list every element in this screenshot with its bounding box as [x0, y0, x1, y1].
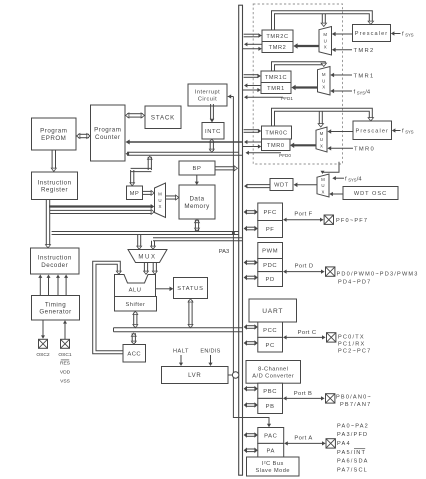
svg-text:M: M	[323, 32, 327, 37]
svg-text:Circuit: Circuit	[198, 96, 217, 102]
label TMR2 pin	[354, 48, 375, 54]
block WDT	[270, 179, 293, 191]
svg-text:Memory: Memory	[184, 203, 210, 210]
label PA5/INT	[337, 449, 366, 456]
register TMR0C	[262, 126, 292, 139]
svg-text:Register: Register	[41, 187, 68, 194]
svg-text:MUX: MUX	[138, 255, 156, 261]
svg-text:SYS: SYS	[405, 33, 414, 38]
svg-text:STATUS: STATUS	[177, 286, 203, 292]
wire branch into M3 top	[318, 111, 323, 127]
wire INT/PFD vertical line to Interrupt Circuit and Port A	[228, 94, 272, 427]
svg-text:Prescaler: Prescaler	[355, 31, 389, 37]
wire M3 output to TMR0 (thick)	[290, 143, 316, 148]
label PC0/TX	[338, 334, 365, 340]
svg-text:Generator: Generator	[39, 309, 71, 316]
svg-text:PFD1: PFD1	[281, 96, 293, 101]
wire Interrupt Circuit to INTC	[210, 104, 215, 123]
svg-text:PD: PD	[266, 277, 275, 283]
wire HALT to LVR	[179, 355, 183, 366]
svg-text:TMR2: TMR2	[354, 48, 375, 54]
wire Prescaler to M3	[327, 129, 353, 133]
svg-text:Counter: Counter	[95, 134, 121, 141]
wire into M4 top	[321, 162, 340, 174]
bus write arrow to TMR2	[243, 47, 262, 51]
svg-text:Timing: Timing	[45, 301, 66, 308]
svg-text:PA0~PA2: PA0~PA2	[337, 424, 369, 430]
label VSS	[60, 379, 71, 385]
wire EPROM down to Instruction Register	[51, 150, 56, 172]
label fSYS/4 (WDT input)	[345, 177, 362, 183]
svg-text:PA6/SDA: PA6/SDA	[337, 459, 369, 465]
svg-text:M: M	[322, 72, 326, 77]
label PA3/PFD	[337, 432, 368, 438]
block INTC	[202, 123, 224, 140]
svg-text:PD4~PD7: PD4~PD7	[338, 279, 371, 285]
svg-text:Shifter: Shifter	[126, 302, 146, 308]
label PFD0 under TMR0	[279, 153, 291, 158]
svg-text:TMR1: TMR1	[354, 74, 375, 80]
wire fSYS to Prescaler	[392, 128, 401, 132]
pad Port F	[324, 215, 333, 224]
wire STATUS to data bus (double arrow)	[188, 299, 193, 328]
bus arrow PB	[244, 402, 258, 408]
svg-text:EN/DIS: EN/DIS	[200, 349, 220, 355]
svg-text:PC0/TX: PC0/TX	[338, 334, 365, 340]
svg-text:PBC: PBC	[263, 389, 277, 395]
svg-text:PA3: PA3	[219, 249, 230, 255]
block Program EPROM	[32, 118, 77, 150]
label TMR0 pin	[354, 147, 375, 153]
wire data bus lower H3	[114, 328, 243, 332]
wire data bus to ACC (double arrow)	[131, 333, 136, 344]
internal data bus (vertical double line with end caps)	[238, 5, 243, 475]
svg-text:PCC: PCC	[263, 328, 277, 334]
pad Port B	[326, 394, 335, 403]
label PC2~PC7	[338, 348, 371, 354]
label Port F	[294, 212, 312, 218]
wire M2 output to TMR1 (thick)	[291, 85, 317, 90]
pad Port C	[327, 333, 336, 342]
wire PFD1 to bus	[244, 95, 283, 99]
bus read arrow from TMR2	[244, 42, 262, 46]
wire PC-STACK (double arrow)	[126, 113, 145, 118]
svg-text:Instruction: Instruction	[38, 255, 72, 262]
mux M4 (WDT clock mux)	[317, 174, 329, 197]
label PC1/RX	[338, 341, 365, 347]
bus write arrow to TMR0	[243, 144, 262, 148]
label fSYS (TMR2 prescaler input)	[402, 32, 414, 38]
svg-text:PA3/PFD: PA3/PFD	[337, 432, 368, 438]
svg-text:TMR0C: TMR0C	[265, 131, 287, 137]
wire OSC1 to TG	[63, 320, 67, 339]
block Shifter	[115, 297, 157, 312]
svg-text:Interrupt: Interrupt	[195, 90, 220, 96]
label PA0~PA2	[337, 424, 369, 430]
label TMR1 pin	[354, 74, 375, 80]
mux M5 (RAM address mux)	[155, 183, 166, 218]
bus read arrow from TMR0	[244, 140, 262, 144]
block STATUS	[174, 278, 208, 299]
label PA3 on wire	[219, 249, 230, 255]
bus arrow PC	[244, 340, 258, 346]
register PFC	[258, 203, 283, 221]
prescaler (TMR0)	[353, 121, 392, 140]
label PA6/SDA	[337, 459, 369, 465]
register PWM	[258, 243, 283, 259]
wire EPROM-PC (double arrow)	[77, 134, 91, 139]
wire M1 output to TMR2 (thick)	[293, 43, 319, 48]
junction dot on INT wire	[232, 232, 235, 235]
svg-text:Port B: Port B	[294, 391, 313, 397]
svg-text:INTC: INTC	[205, 129, 221, 135]
svg-text:PC1/RX: PC1/RX	[338, 341, 365, 347]
pad OSC1	[61, 339, 70, 348]
svg-text:U: U	[158, 198, 161, 203]
svg-text:Program: Program	[40, 128, 67, 135]
svg-text:SYS: SYS	[405, 130, 414, 135]
svg-text:Data: Data	[189, 196, 204, 203]
svg-text:RES: RES	[60, 361, 71, 367]
block WDT OSC	[343, 187, 398, 200]
svg-text:PFC: PFC	[263, 210, 276, 216]
svg-text:TMR2: TMR2	[269, 45, 287, 51]
bus arrow PBC	[244, 386, 258, 392]
wire down-branch to MP (double line staircase)	[130, 156, 152, 186]
prescaler (TMR2)	[353, 25, 391, 42]
label fSYS (TMR0 prescaler input)	[402, 129, 414, 135]
wire fSYS to Prescaler	[391, 31, 401, 35]
wire IR data to M5 (double line)	[50, 210, 155, 215]
block I2C Bus Slave Mode	[247, 457, 300, 476]
svg-text:HALT: HALT	[173, 349, 189, 355]
wire data path H2 (bus to MUX)	[151, 238, 243, 250]
svg-text:Prescaler: Prescaler	[355, 128, 389, 134]
register PA	[258, 443, 284, 457]
wire Port D line	[283, 270, 325, 274]
pad OSC2	[39, 339, 48, 348]
bus write arrow to TMR2C	[244, 33, 262, 38]
bus write arrow to TMR1C	[244, 74, 261, 79]
label OSC1	[58, 352, 72, 358]
label Port B	[294, 391, 313, 397]
wire WDT OSC to M4	[329, 192, 343, 196]
wire TMR1 pin to M2	[330, 73, 352, 77]
register PC	[258, 337, 283, 352]
wire fSYS/4 to M4	[332, 176, 344, 180]
svg-text:M: M	[158, 192, 162, 197]
register ACC	[123, 345, 146, 363]
block UART	[249, 299, 297, 322]
svg-text:Port C: Port C	[298, 330, 317, 336]
svg-text:Port D: Port D	[295, 264, 314, 270]
svg-text:X: X	[320, 143, 323, 148]
svg-text:X: X	[322, 85, 325, 90]
block Timing Generator	[32, 296, 80, 321]
register PF	[258, 221, 283, 238]
wire Port A line	[284, 441, 325, 445]
mux M6 (ALU operand mux)	[128, 250, 167, 263]
bus read arrow from TMR1	[244, 83, 261, 87]
label VDD	[60, 370, 71, 376]
wires M6 to ALU	[144, 263, 158, 275]
svg-text:EPROM: EPROM	[41, 135, 66, 142]
svg-text:Decoder: Decoder	[41, 262, 68, 269]
register PAC	[258, 428, 284, 444]
wire BP to bus (double arrow)	[215, 166, 238, 171]
wire branch address (thick) from bus to PC	[126, 140, 243, 145]
pad Port A	[326, 439, 335, 448]
register TMR2	[262, 42, 293, 53]
svg-text:PDC: PDC	[263, 263, 277, 269]
svg-text:LVR: LVR	[188, 373, 201, 379]
wire M5 to Data Memory (double arrow)	[166, 195, 179, 200]
svg-text:f: f	[402, 32, 404, 38]
register PB	[258, 398, 283, 413]
svg-text:X: X	[324, 45, 327, 50]
svg-text:TMR1: TMR1	[267, 86, 285, 92]
svg-text:Instruction: Instruction	[37, 179, 71, 186]
svg-text:UART: UART	[262, 308, 283, 315]
svg-text:Slave Mode: Slave Mode	[255, 468, 290, 474]
svg-text:8-Channel: 8-Channel	[258, 366, 288, 372]
svg-text:PA4: PA4	[337, 441, 351, 447]
svg-text:BP: BP	[193, 166, 202, 172]
wire Port B line	[283, 396, 325, 400]
bus arrow PA	[244, 448, 258, 454]
svg-text:VSS: VSS	[60, 379, 71, 385]
block LVR	[162, 367, 229, 384]
svg-text:PA5/INT: PA5/INT	[337, 450, 366, 456]
svg-text:WDT OSC: WDT OSC	[354, 191, 387, 197]
label PA7/SCL	[337, 468, 368, 474]
svg-text:U: U	[322, 78, 325, 83]
svg-text:WDT: WDT	[274, 183, 289, 189]
register PD	[258, 272, 283, 287]
svg-text:X: X	[159, 204, 162, 209]
label PB0/AN0~	[336, 395, 372, 401]
bus write arrow to TMR1	[243, 88, 261, 92]
svg-text:U: U	[321, 183, 324, 188]
register PDC	[258, 259, 283, 272]
wire program bus lines to PC	[126, 152, 243, 157]
svg-text:PFD0: PFD0	[279, 153, 291, 158]
pad Port D	[326, 267, 335, 276]
svg-text:f: f	[354, 90, 356, 96]
svg-text:PC: PC	[266, 343, 275, 349]
mux M3 (TMR0 clock mux)	[316, 127, 327, 152]
wire M4 to WDT	[294, 183, 317, 188]
wire IR immediate address (thick) to M5	[49, 204, 154, 209]
svg-text:I²C Bus: I²C Bus	[262, 461, 284, 467]
svg-text:PF0~PF7: PF0~PF7	[336, 218, 368, 224]
wire IR down to Instruction Decoder	[46, 200, 51, 249]
wire TG to OSC2	[41, 320, 45, 339]
wire EN/DIS to LVR	[208, 355, 212, 366]
bus write arrow to TMR0C	[244, 129, 262, 134]
label PF0~PF7	[336, 218, 368, 224]
bus arrow PCC	[244, 324, 258, 330]
register MP	[127, 186, 143, 200]
register PBC	[258, 383, 283, 398]
label RES	[60, 360, 71, 367]
block 8-Channel A/D Converter	[246, 361, 301, 384]
wire TMR2 pin to M1	[332, 48, 352, 52]
block Data Memory	[179, 185, 215, 219]
wire ALU to STATUS	[156, 287, 174, 292]
wires Timing Generator to Instruction Decoder (4 arrows)	[38, 275, 68, 296]
register TMR1	[261, 83, 291, 94]
svg-text:/4: /4	[357, 177, 363, 183]
svg-text:U: U	[320, 137, 323, 142]
wire Shifter to data bus (double arrow)	[133, 311, 138, 327]
svg-text:TMR1C: TMR1C	[265, 75, 287, 81]
svg-text:PAC: PAC	[264, 434, 277, 440]
register BP	[179, 161, 215, 175]
svg-text:ALU: ALU	[129, 287, 142, 293]
wire fSYS/4 to M2	[330, 89, 352, 93]
block Instruction Decoder	[31, 248, 80, 274]
label fSYS/4 (TMR1 input)	[354, 90, 371, 96]
svg-text:A/D Converter: A/D Converter	[252, 373, 294, 379]
block Interrupt Circuit	[188, 84, 227, 106]
svg-text:PF: PF	[266, 227, 275, 233]
svg-text:TMR2C: TMR2C	[266, 34, 288, 40]
label Port A	[294, 436, 312, 442]
svg-text:M: M	[321, 177, 325, 182]
bus arrow PDC	[244, 260, 258, 266]
bus arrow PD	[244, 275, 258, 281]
svg-text:STACK: STACK	[151, 114, 175, 121]
wire LVR to bus with node circle	[228, 372, 239, 378]
wire TMR2C to Prescaler top (double-line loop)	[272, 11, 374, 30]
bus arrow PAC	[244, 432, 258, 438]
svg-text:Port A: Port A	[294, 436, 312, 442]
wire Data Memory down to data path (double arrow)	[195, 220, 200, 232]
label Port D	[295, 264, 314, 270]
svg-text:TMR0: TMR0	[267, 143, 285, 149]
ALU shape	[115, 275, 156, 297]
svg-text:PB7/AN7: PB7/AN7	[340, 402, 371, 408]
dashed box around timer section	[253, 4, 342, 164]
block STACK	[145, 106, 181, 129]
svg-text:X: X	[322, 189, 325, 194]
wire Port C line	[283, 335, 326, 339]
wire TMR0 pin to M3	[327, 146, 353, 150]
bus arrow PF	[244, 226, 258, 232]
wire Port F line	[283, 218, 324, 222]
svg-text:/4: /4	[365, 90, 371, 96]
svg-text:PA: PA	[266, 448, 275, 454]
wire MP to MUX (double arrow)	[143, 191, 155, 196]
svg-text:PWM: PWM	[262, 249, 278, 255]
register TMR2C	[262, 30, 293, 42]
svg-text:f: f	[402, 129, 404, 135]
wire ACC loop into ALU	[93, 261, 123, 353]
wire WDT to bus	[244, 184, 270, 189]
svg-text:PB0/AN0~: PB0/AN0~	[336, 395, 372, 401]
svg-text:VDD: VDD	[60, 370, 71, 376]
labels HALT EN/DIS	[173, 349, 221, 355]
label PB7/AN7	[340, 402, 371, 408]
svg-text:PC2~PC7: PC2~PC7	[338, 348, 371, 354]
wire Prescaler to M1	[332, 32, 353, 36]
svg-text:PD0/PWM0~PD3/PWM3: PD0/PWM0~PD3/PWM3	[337, 271, 419, 277]
svg-text:OSC1: OSC1	[58, 352, 72, 358]
svg-text:MP: MP	[130, 191, 139, 197]
label PFD1 under TMR1	[281, 96, 293, 101]
svg-text:M: M	[320, 131, 324, 136]
wire TMR0C to Prescaler top (double-line loop)	[272, 108, 374, 126]
wire INTC to program bus (double arrow)	[209, 139, 214, 152]
wire branch into M1 top	[321, 14, 326, 27]
label PD0/PWM0~PD3/PWM3	[337, 271, 419, 277]
register PCC	[258, 322, 283, 337]
svg-text:Program: Program	[94, 127, 121, 134]
svg-text:SYS: SYS	[357, 91, 366, 96]
svg-text:TMR0: TMR0	[354, 147, 375, 153]
svg-text:f: f	[345, 177, 347, 183]
wire data path H1 (IR/DM to MUX/bus)	[52, 232, 239, 250]
mux M2 (TMR1 clock mux)	[318, 67, 331, 96]
block Instruction Register	[32, 172, 78, 200]
wire BP down to Data Memory	[195, 175, 199, 185]
label Port C	[298, 330, 317, 336]
bus arrow PFC	[244, 209, 258, 215]
block Program Counter	[91, 105, 126, 161]
wire PFD0 to bus	[246, 151, 282, 155]
svg-text:SYS: SYS	[348, 178, 357, 183]
svg-text:OSC2: OSC2	[36, 352, 50, 358]
svg-text:Port F: Port F	[294, 212, 312, 218]
register TMR1C	[261, 71, 291, 83]
label PD4~PD7	[338, 279, 371, 285]
svg-text:PB: PB	[266, 404, 275, 410]
svg-text:ACC: ACC	[127, 351, 141, 357]
label OSC2	[36, 352, 50, 358]
svg-text:U: U	[324, 38, 327, 43]
mux M1 (TMR2 clock mux)	[319, 27, 332, 56]
label PA4	[337, 441, 351, 447]
wire TMR1C to M2 top (double-line loop)	[272, 62, 327, 71]
register TMR0	[262, 139, 291, 151]
svg-text:PA7/SCL: PA7/SCL	[337, 468, 368, 474]
